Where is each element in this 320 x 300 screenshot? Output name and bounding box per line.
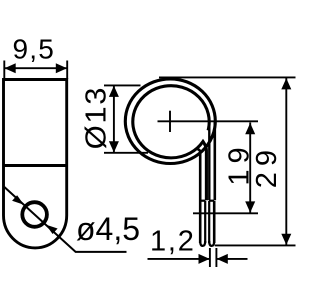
dim 1,2 right line with arrow — [217, 258, 248, 260]
left view: screw hole — [22, 202, 47, 227]
center cross vertical — [169, 111, 171, 132]
dim 19 line — [249, 123, 251, 213]
right view: inner loop arc with slit transition — [133, 86, 209, 201]
left view: tangent line across tab — [4, 164, 67, 167]
arrow up 19 — [245, 123, 255, 134]
arrowhead upper-left pointing at hole — [12, 195, 24, 204]
svg-text:ø4,5: ø4,5 — [76, 211, 140, 247]
leader line through hole — [4, 187, 126, 252]
crossbar step left — [200, 200, 205, 202]
dim 1,2 extension lines — [209, 248, 211, 267]
arrow up 29 — [281, 78, 291, 89]
U bottom right strip — [209, 241, 214, 246]
dimension 9,5 extension lines — [3, 61, 5, 80]
dim 29 line — [285, 78, 287, 245]
arrow right 9,5 — [56, 63, 67, 73]
dim 29 top ref line — [159, 76, 296, 78]
crossbar step right — [209, 200, 214, 202]
U bottom left strip — [200, 241, 205, 246]
dimension 9,5 line — [4, 67, 67, 69]
svg-text:Ø13: Ø13 — [80, 86, 112, 149]
lower leg line 2 — [204, 201, 206, 243]
arrow left 9,5 — [5, 63, 16, 73]
dim diameter 13 line — [113, 85, 115, 152]
lower leg line 4 — [213, 201, 216, 243]
arrow down 19 — [245, 201, 255, 212]
svg-text:9,5: 9,5 — [13, 34, 56, 65]
arrow down dia13 — [109, 141, 119, 152]
svg-text:1,2: 1,2 — [150, 226, 196, 258]
arrow up dia13 — [109, 86, 119, 97]
leg left wall from loop — [196, 149, 200, 243]
arrowhead lower-right pointing at hole — [46, 225, 58, 234]
dim diameter 13 bottom ref line — [104, 152, 148, 154]
dim 19 bottom ref line — [193, 212, 258, 214]
slit right wall — [208, 124, 210, 200]
right view: outer loop ellipse — [125, 79, 215, 164]
leg outer right wall — [214, 122, 217, 200]
svg-text:29: 29 — [251, 144, 283, 188]
center cross horizontal — [158, 120, 259, 122]
dim 1,2 left line with arrow — [148, 258, 210, 260]
arrow down 29 — [281, 234, 291, 245]
lower leg line 3 — [208, 201, 210, 243]
dim 29 bottom ref line — [215, 244, 296, 246]
dim diameter 13 top ref line — [104, 84, 141, 86]
left view: base tab outline — [4, 80, 67, 248]
